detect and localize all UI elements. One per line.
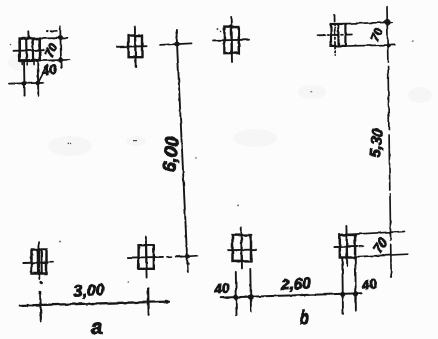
column A3 centerline dot below (39, 281, 43, 285)
6.00 top tick (160, 43, 192, 45)
6.00 top junction dot (174, 42, 179, 47)
70 extension line bottom (plan b bottom) (354, 254, 408, 257)
40 junction dot left (plan b right) (340, 292, 345, 297)
centerline dash 1 (167, 256, 171, 258)
70 dimension arrow top (58, 35, 63, 40)
5.30 small junction cross (386, 44, 390, 48)
40 dimension line horizontal (9, 82, 43, 85)
70 extension line top (plan b top) (339, 22, 393, 24)
40 junction dot right (plan b right) (353, 291, 358, 296)
svg-text:40: 40 (39, 61, 58, 79)
40 junction dot left (233, 295, 239, 301)
blob below 6.00 bottom cross (186, 262, 189, 265)
svg-text:6,00: 6,00 (158, 135, 183, 174)
40 extension line right (plan b) (249, 269, 252, 311)
column A3 vertical centerline (38, 242, 40, 279)
column B4 vertical centerline (345, 226, 348, 266)
column B3 vertical centerline (240, 228, 243, 268)
70 extension line top (plan b bottom) (340, 232, 404, 235)
6.00 dimension line vertical (176, 30, 187, 272)
column B1 vertical centerline (230, 17, 233, 62)
5.30 top junction dot (385, 19, 391, 25)
scan specks (10, 40, 414, 306)
svg-text:40: 40 (360, 276, 378, 293)
column A3 horizontal centerline (23, 261, 48, 264)
column B1 horizontal centerline (214, 39, 249, 42)
column A1 extension line below left (23, 61, 26, 96)
40 extension line left (plan b) (235, 272, 238, 315)
40 dimension junction dot left (22, 81, 27, 86)
column A3 centerline dash (50, 261, 53, 263)
70 dimension line vertical (60, 26, 61, 68)
column A3 (bottom-left) (32, 250, 47, 274)
column A4 vertical centerline (145, 237, 148, 278)
specks near column B1 (217, 29, 222, 33)
70 dimension extension line top (40, 37, 68, 40)
3.00 right end dot (164, 300, 168, 304)
column B4 centerline dash (360, 245, 363, 247)
svg-text:a: a (90, 315, 104, 339)
svg-text:b: b (300, 306, 310, 329)
centerline dash 2 (176, 255, 183, 257)
column A4 horizontal centerline (128, 256, 163, 259)
column B1 (plan b top-left) (224, 27, 238, 53)
column A1 (top-left, detailed) (20, 39, 40, 65)
svg-text:40: 40 (213, 280, 231, 297)
3.00 left arrow tip (20, 304, 29, 307)
svg-text:70: 70 (368, 26, 386, 44)
column A2 vertical centerline (134, 27, 137, 67)
column A1 extension line below right (37, 61, 40, 96)
6.00 bottom junction dot (186, 254, 190, 258)
column B4 horizontal centerline (335, 245, 358, 248)
column A4 (bottom-right of plan a) (139, 245, 154, 269)
5.30 dimension line vertical (387, 7, 391, 277)
column B2 (plan b top-right) (331, 24, 345, 46)
40 extension line left (plan b right) (341, 258, 344, 314)
column B2 horizontal centerline (318, 34, 352, 37)
column A2 horizontal centerline (117, 45, 147, 48)
40 leader line (38, 65, 48, 84)
svg-text:70: 70 (42, 41, 61, 60)
column B3 (plan b bottom-left) (233, 235, 252, 261)
cross at 3.00 right end (147, 289, 150, 315)
70 dimension arrow bottom (58, 57, 63, 62)
40 extension line right (plan b right) (354, 258, 357, 311)
column B4 (plan b bottom-right) (340, 235, 355, 258)
2.60 dimension line (221, 293, 362, 297)
40 junction dot right (248, 294, 254, 300)
70 extension line bottom (plan b top) (339, 45, 395, 46)
paper tone mottling (8, 53, 432, 156)
3.00 dimension line (20, 302, 169, 306)
column A1 vertical centerline (above) (27, 31, 29, 39)
svg-text:70: 70 (370, 235, 391, 256)
column B3 horizontal centerline (228, 249, 256, 252)
svg-text:2,60: 2,60 (280, 275, 312, 294)
column A2 (top-middle) (129, 36, 142, 58)
column A1 horizontal centerline (13, 49, 44, 52)
6.00 bottom tick (177, 256, 197, 257)
column B2 vertical centerline (334, 15, 337, 56)
cross at 3.00 left end (39, 292, 42, 321)
svg-text:3,00: 3,00 (73, 282, 105, 301)
40 dimension junction dot right (36, 81, 41, 86)
40 dimension left arrow tip (8, 82, 14, 85)
svg-text:5,30: 5,30 (367, 127, 387, 158)
70 dimension extension line bottom (40, 59, 69, 62)
dash-dot mark above 70 dimension (47, 31, 58, 33)
